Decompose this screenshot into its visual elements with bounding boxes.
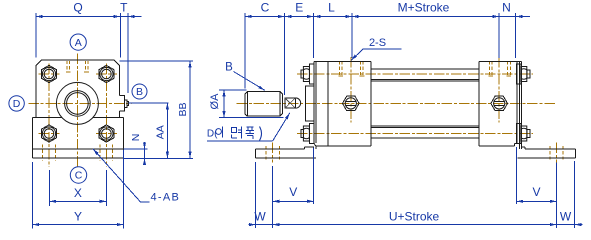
svg-text:2-S: 2-S bbox=[369, 37, 386, 49]
svg-text:B: B bbox=[225, 62, 233, 74]
svg-text:U+Stroke: U+Stroke bbox=[389, 209, 440, 223]
svg-text:N: N bbox=[130, 134, 142, 142]
svg-text:AA: AA bbox=[155, 125, 167, 139]
svg-text:X: X bbox=[74, 186, 82, 200]
svg-text:B: B bbox=[136, 86, 143, 98]
svg-text:ØA: ØA bbox=[209, 93, 221, 110]
svg-text:Q: Q bbox=[73, 1, 82, 15]
svg-text:Y: Y bbox=[74, 209, 82, 223]
svg-text:4-AB: 4-AB bbox=[151, 192, 181, 204]
svg-text:BB: BB bbox=[177, 102, 189, 116]
svg-text:C: C bbox=[75, 170, 83, 182]
svg-text:L: L bbox=[328, 1, 335, 15]
svg-text:C: C bbox=[261, 1, 270, 15]
svg-text:V: V bbox=[532, 185, 540, 199]
svg-text:N: N bbox=[502, 1, 511, 15]
svg-text:E: E bbox=[295, 1, 303, 15]
svg-text:W: W bbox=[560, 209, 572, 223]
svg-text:M+Stroke: M+Stroke bbox=[398, 1, 450, 15]
svg-text:V: V bbox=[289, 185, 297, 199]
svg-text:D: D bbox=[13, 98, 21, 110]
svg-text:T: T bbox=[120, 1, 128, 15]
svg-text:W: W bbox=[254, 209, 266, 223]
svg-text:A: A bbox=[75, 37, 82, 49]
